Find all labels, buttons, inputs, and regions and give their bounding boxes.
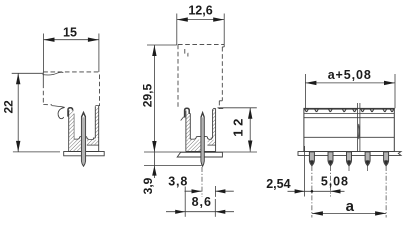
svg-text:8,6: 8,6 [192,195,212,209]
base hatched right band [87,140,98,145]
pin left view [81,117,85,166]
pcb-top extension line (shared by 29,5 / 3,9 / 12) [144,151,257,153]
collar line [304,117,394,119]
dimension 8,6 [184,187,186,217]
dimension 15 extension line right [98,34,100,72]
middle gap lens detail [358,124,359,139]
pcb bar left view [64,152,104,156]
middle break gap lines [357,103,359,152]
pin centerlines [312,166,386,218]
dimension 12,6 extension lines [176,14,178,46]
left wall edges [185,111,187,152]
body bottom on pcb [69,151,99,153]
svg-text:5,08: 5,08 [321,175,349,189]
left wall top curl [68,108,73,118]
svg-text:12,6: 12,6 [188,3,212,17]
dimension a+5,08 extension lines [304,74,306,108]
dimension 29,5 extension top [147,44,177,46]
phantom latch slot mark [185,49,188,57]
latch lever line [52,106,65,108]
teeth: thick top edge of body [304,108,358,110]
left wall outer edge [68,111,70,152]
pin centerline below (middle) [201,167,203,197]
phantom outline middle (dashed) [178,45,224,109]
latch hook arc [58,108,64,119]
svg-text:a+5,08: a+5,08 [328,68,372,82]
dimension 22 arrow bottom [16,141,20,152]
base hatched left block (middle) [186,140,200,152]
phantom latch sliver at top [43,72,64,75]
dimension 12 arrows [248,108,252,119]
dimension 12 extension top [218,107,257,109]
dimension 15 line [44,39,99,41]
teeth V-notch marks [304,109,394,113]
svg-text:22: 22 [2,100,16,114]
left wall hatch [69,111,74,140]
pin middle view [201,117,204,166]
svg-text:2,54: 2,54 [266,177,290,191]
dimension 22 extension line top [12,72,43,74]
svg-text:3,8: 3,8 [168,174,188,188]
dimension 3,8 [214,186,216,197]
pin-tip extension line (3,9 bottom) [144,165,202,167]
right wall (hatched) [96,107,99,138]
dimension 12 line [249,108,251,152]
pcb bar right view [298,152,401,156]
dimension 22 arrow top [16,73,20,84]
pins right view (through-hole, pass through pcb) [309,152,388,166]
left wall top curl (middle view) [185,108,190,120]
right wall edges (middle) [212,110,214,139]
dimension 15 arrow right [88,38,99,42]
dimension 15 extension line left [43,34,45,72]
svg-text:3,9: 3,9 [141,177,155,194]
dimension a [312,212,386,214]
base hatched left block [69,140,81,152]
base band bottom line (middle) [207,144,215,146]
left wall inner edge [73,114,75,140]
dimension 2,54 [304,146,306,197]
body bottom on pcb (middle) [186,151,216,153]
dimension 3,9 bottom arrow (outside, pointing up) [152,166,156,176]
phantom left edge solid upper part [42,72,44,84]
cavity floor with collar (middle) [190,137,212,140]
body outline right view [304,108,394,151]
right wall top step [95,103,99,105]
dimension 12,6 line [177,19,224,21]
dimension 29,5 arrow top [152,45,156,56]
latch tick [181,117,184,121]
phantom mating connector outline (dashed) [43,72,99,105]
right wall inner edge [94,106,96,138]
dimension 29,5 arrow bottom / 3,9 top arrow [152,141,156,152]
right wall hatched (middle) [213,110,215,139]
svg-text:12: 12 [231,115,246,137]
cavity floor with collar around pin [74,137,95,140]
dimension 22 extension line bottom (pcb top extended) [13,151,60,153]
right wall outer edge [98,106,100,152]
dimension 29,5 / 3,9 vertical line [153,45,155,178]
svg-text:15: 15 [63,26,77,40]
left wall hatched (middle) [186,114,190,139]
dimension 12,6 arrows [177,17,188,21]
dimension 22 line [17,73,19,152]
teeth strip bottom line [304,113,394,115]
base band bottom line [87,144,99,146]
svg-text:a: a [346,198,355,215]
dimension 15 arrow left [44,38,55,42]
base hatched right band (middle) [208,140,216,145]
mid body line [304,136,394,138]
dimension a+5,08 line [305,82,395,84]
svg-text:29,5: 29,5 [141,83,155,107]
pcb bar middle view [177,152,222,157]
right wall top chamfer + tick [213,108,216,109]
